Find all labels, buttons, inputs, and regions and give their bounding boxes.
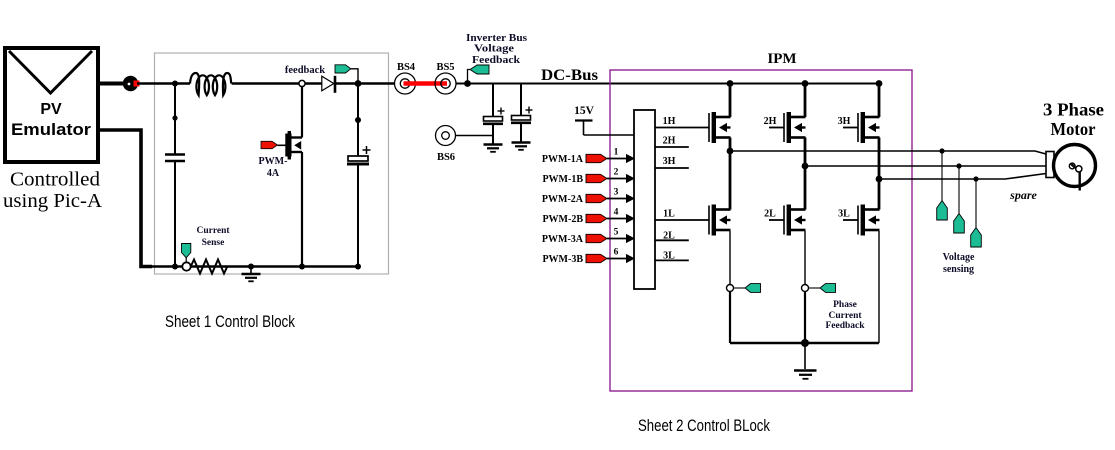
svg-text:Current: Current <box>828 311 862 321</box>
svg-text:Sense: Sense <box>202 238 225 248</box>
svg-text:1: 1 <box>614 148 619 158</box>
node PV output terminal <box>123 76 140 91</box>
voltage sense probe x=959 <box>954 166 965 233</box>
ground C3 <box>484 145 503 152</box>
svg-text:6: 6 <box>614 248 619 258</box>
svg-text:Sheet 1 Control Block: Sheet 1 Control Block <box>165 312 295 331</box>
svg-text:BS5: BS5 <box>436 62 454 73</box>
node feedback junction <box>355 80 362 87</box>
inverter bus feedback arrow <box>468 65 490 84</box>
driver output 3H <box>655 156 689 168</box>
svg-text:Motor: Motor <box>1051 119 1096 139</box>
svg-text:3H: 3H <box>663 156 676 167</box>
svg-text:5: 5 <box>614 228 619 238</box>
diode D1 <box>322 76 335 93</box>
svg-text:3 Phase: 3 Phase <box>1043 100 1104 120</box>
node bottom rail <box>801 339 809 347</box>
input PWM-2B <box>542 208 635 226</box>
wire source column x=805 <box>804 231 806 285</box>
svg-text:PWM-1B: PWM-1B <box>542 174 583 185</box>
svg-text:Inverter Bus: Inverter Bus <box>466 33 527 44</box>
wire PV negative return <box>98 130 152 267</box>
driver output 2H <box>655 136 689 148</box>
svg-text:Emulator: Emulator <box>11 120 91 139</box>
node voltage tap x=976 <box>973 176 978 181</box>
wire drain column x=879 <box>878 84 881 118</box>
transistor 3L <box>838 205 879 236</box>
svg-text:2L: 2L <box>764 209 776 220</box>
svg-text:2H: 2H <box>663 136 676 147</box>
connector BS6 <box>436 126 456 164</box>
node DC bus feedback tap <box>464 80 471 87</box>
node Q1 source junction <box>299 264 305 270</box>
capacitor C4 <box>511 84 533 143</box>
wire phase column x=730 <box>729 138 732 210</box>
capacitor C2 <box>347 146 371 164</box>
wire source column x=730 <box>729 231 731 285</box>
wire phase A to motor <box>730 151 1046 154</box>
label Current Sense <box>196 226 230 248</box>
wire source column x=879 <box>878 231 880 343</box>
svg-text:feedback: feedback <box>285 65 325 76</box>
label Phase Current Feedback <box>825 300 865 331</box>
sheet 1 frame <box>155 53 389 274</box>
input PWM-3B <box>542 248 635 266</box>
PV Emulator box <box>5 48 98 162</box>
node bottom left <box>172 264 178 270</box>
label 3 Phase Motor <box>1043 100 1104 140</box>
wire below terminal x=730 <box>729 292 731 344</box>
phase current terminal x=730 <box>727 285 734 292</box>
wire left branch <box>174 84 176 267</box>
wire drain column x=730 <box>729 84 732 118</box>
voltage sense probe x=976 <box>971 179 982 247</box>
wire phase B to motor <box>805 165 1046 167</box>
label Voltage sensing <box>943 252 975 275</box>
capacitor C3 <box>483 84 505 145</box>
current sense arrow <box>182 244 191 263</box>
svg-text:3: 3 <box>614 188 619 198</box>
node voltage tap x=942 <box>939 148 944 153</box>
wire drain column x=805 <box>804 84 807 118</box>
driver output 3L <box>655 251 689 262</box>
wire phase C to motor <box>879 174 1046 180</box>
node ground tap <box>248 264 254 270</box>
ground C4 <box>512 143 531 150</box>
svg-text:PV: PV <box>40 101 62 118</box>
input PWM-1B <box>542 168 635 186</box>
supply 15V <box>574 105 634 135</box>
IPM frame <box>610 70 912 391</box>
node DC rail x=805 <box>802 80 809 87</box>
svg-text:BS6: BS6 <box>437 152 455 163</box>
svg-text:Sheet 2 Control BLock: Sheet 2 Control BLock <box>638 416 770 435</box>
svg-text:Controlled: Controlled <box>10 169 100 191</box>
red bus bar BS4-BS5 <box>404 81 448 86</box>
svg-text:4: 4 <box>614 208 619 218</box>
svg-text:3L: 3L <box>838 209 850 220</box>
driver output 1L <box>655 209 709 221</box>
wire bottom rail sheet1 <box>152 265 358 268</box>
wire C2 bottom <box>357 166 359 267</box>
wire DC bus <box>456 83 880 85</box>
transistor 3H <box>838 112 880 143</box>
wire top rail left <box>137 82 190 84</box>
input PWM-2A <box>542 188 635 206</box>
svg-text:4A: 4A <box>267 168 280 179</box>
svg-text:BS4: BS4 <box>397 62 416 73</box>
label PWM-4A <box>259 156 288 179</box>
svg-text:using Pic-A: using Pic-A <box>3 190 103 212</box>
svg-text:PWM-: PWM- <box>259 156 288 167</box>
input PWM-3A <box>542 228 635 246</box>
voltage sense probe x=942 <box>937 151 948 220</box>
wire top rail right <box>336 82 405 84</box>
capacitor C1 <box>165 155 185 162</box>
resistor R1 <box>191 260 228 274</box>
svg-text:Feedback: Feedback <box>472 55 521 66</box>
wire Q1 drain <box>301 87 303 138</box>
node voltage tap x=959 <box>956 163 961 168</box>
wire BS6 to cap <box>456 135 493 137</box>
transistor Q1 PWM-4A <box>285 131 302 160</box>
wire below terminal x=805 <box>804 292 806 344</box>
svg-text:PWM-2A: PWM-2A <box>542 194 584 205</box>
transistor 1H <box>709 112 731 143</box>
node DC rail x=730 <box>727 80 734 87</box>
connector BS4 <box>395 62 416 94</box>
phase current arrow x=730 <box>734 284 761 293</box>
label Controlled using Pic-A <box>3 169 103 213</box>
svg-text:2: 2 <box>614 168 619 178</box>
transistor 2L <box>764 205 805 236</box>
label Inverter Bus Voltage Feedback <box>466 33 527 66</box>
ground IPM <box>794 343 817 379</box>
node input junction <box>172 81 178 87</box>
transistor 2H <box>764 112 806 143</box>
input PWM-1A <box>542 148 635 166</box>
svg-text:Phase: Phase <box>833 300 857 310</box>
node phase x=879 <box>876 176 883 183</box>
wire IPM bottom rail <box>730 342 879 344</box>
node phase x=805 <box>802 163 809 170</box>
wire phase column x=879 <box>878 138 881 210</box>
svg-text:spare: spare <box>1009 188 1037 202</box>
wire C2 top <box>357 84 359 157</box>
node C2 bottom junction <box>355 264 361 270</box>
ground sheet1 <box>242 267 261 282</box>
inductor L1 <box>190 73 231 95</box>
driver output 1H <box>655 116 709 128</box>
node C2 dot <box>355 117 361 123</box>
feedback arrow <box>335 65 358 84</box>
transistor 1L <box>709 205 731 236</box>
svg-text:PWM-3A: PWM-3A <box>542 234 584 245</box>
svg-text:2H: 2H <box>764 116 777 127</box>
motor M1 <box>1054 145 1096 191</box>
input arrow PWM-4A <box>261 141 286 148</box>
svg-text:PWM-2B: PWM-2B <box>542 214 583 225</box>
node phase x=730 <box>727 148 734 155</box>
phase current arrow x=805 <box>809 284 836 293</box>
driver block U2 <box>634 110 655 289</box>
phase current terminal x=805 <box>802 285 809 292</box>
node left branch dot <box>172 115 177 120</box>
svg-text:Current: Current <box>196 226 230 236</box>
svg-text:15V: 15V <box>574 105 595 117</box>
svg-text:Voltage: Voltage <box>943 252 975 263</box>
node DC rail x=879 <box>876 80 883 87</box>
wire top rail mid <box>232 82 322 84</box>
wire PV positive output <box>98 82 124 86</box>
svg-text:sensing: sensing <box>943 264 974 275</box>
svg-text:1L: 1L <box>663 209 675 220</box>
connector BS5 <box>435 62 456 94</box>
svg-text:3H: 3H <box>838 116 851 127</box>
wire phase column x=805 <box>804 138 807 210</box>
svg-text:DC-Bus: DC-Bus <box>541 67 598 84</box>
svg-text:1H: 1H <box>663 116 676 127</box>
svg-text:Voltage: Voltage <box>474 44 515 55</box>
motor connector <box>1046 152 1054 178</box>
svg-text:PWM-3B: PWM-3B <box>542 254 583 265</box>
driver output 2L <box>655 230 689 241</box>
wire Q1 source <box>301 152 303 267</box>
current sense terminal <box>182 262 190 270</box>
svg-text:IPM: IPM <box>767 51 796 67</box>
svg-text:Feedback: Feedback <box>825 321 865 331</box>
svg-text:PWM-1A: PWM-1A <box>542 154 584 165</box>
node Q1 drain junction <box>299 80 305 86</box>
